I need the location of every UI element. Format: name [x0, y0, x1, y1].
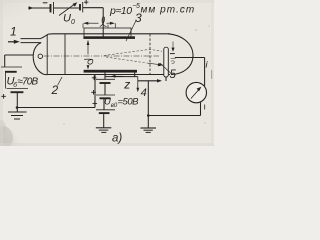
svg-text:5: 5 — [170, 69, 177, 81]
svg-text:=50В: =50В — [118, 96, 140, 107]
svg-text:2: 2 — [51, 83, 59, 97]
svg-text:z: z — [123, 78, 130, 92]
svg-text:−5: −5 — [132, 3, 140, 10]
svg-text:4: 4 — [141, 87, 147, 99]
svg-text:3: 3 — [135, 11, 142, 25]
svg-text:1: 1 — [10, 25, 17, 39]
svg-text:а): а) — [112, 133, 122, 145]
svg-text:0: 0 — [71, 19, 75, 26]
svg-text:U: U — [63, 13, 71, 25]
svg-text:p≈10: p≈10 — [109, 5, 132, 17]
svg-text:мм рт.ст: мм рт.ст — [141, 5, 196, 16]
svg-text:≈70В: ≈70В — [17, 76, 38, 87]
